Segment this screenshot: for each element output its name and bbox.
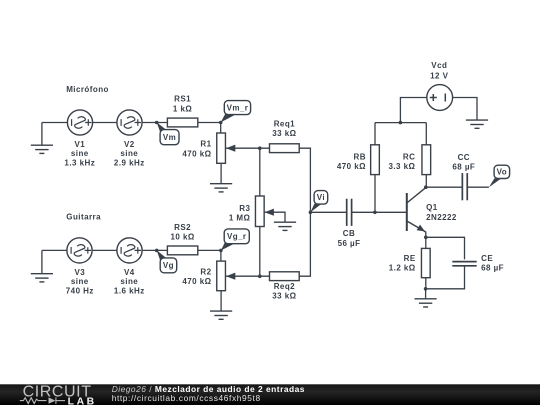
node label Vo <box>489 165 510 187</box>
wire supply rail <box>375 122 426 124</box>
R2 wiper arrow <box>226 273 235 280</box>
svg-text:Vg_r: Vg_r <box>227 232 246 241</box>
source V1 sine <box>67 110 92 135</box>
resistor RC <box>422 145 431 175</box>
wire node to R1 <box>220 123 222 134</box>
resistor Req1 <box>270 144 300 153</box>
ground (guitar input) <box>31 274 53 282</box>
wire Vcd to ground <box>453 98 477 121</box>
node Vm junction <box>155 121 159 125</box>
svg-text:Vi: Vi <box>317 193 325 202</box>
ground (Vcd) <box>466 120 488 128</box>
wire R3 wiper to ground <box>265 212 285 222</box>
node label Vg <box>157 250 177 272</box>
wire to ground <box>425 289 427 299</box>
source V2 sine <box>117 110 142 135</box>
wire input gnd to V3 <box>42 249 67 251</box>
wire R2 wiper to Req2 <box>226 275 270 277</box>
node Vm_r junction <box>219 121 223 125</box>
svg-text:Vo: Vo <box>497 168 507 177</box>
svg-text:Guitarra: Guitarra <box>66 213 101 222</box>
ground (R3 wiper) <box>274 222 296 230</box>
ground (below R2) <box>210 311 232 319</box>
svg-text:Vcd12 V: Vcd12 V <box>430 61 448 80</box>
transistor Q1 2N2222 <box>407 188 426 238</box>
capacitor CB <box>347 199 352 226</box>
ground (mic input) <box>31 145 53 153</box>
resistor RE <box>421 248 430 277</box>
footer bar <box>0 384 540 405</box>
svg-text:Req233 kΩ: Req233 kΩ <box>272 282 296 301</box>
junction R2-wiper/Req2/R3 <box>258 274 262 278</box>
wire input gnd to V1 <box>42 122 68 124</box>
wire RB to base node <box>374 175 376 213</box>
resistor RB <box>371 145 380 175</box>
wire CE to RE bottom <box>426 266 465 289</box>
wire rail up to Vcd <box>400 98 426 123</box>
resistor RS1 <box>167 118 197 127</box>
wire RS1 to node Vm_r <box>198 122 221 124</box>
svg-text:Vm_r: Vm_r <box>227 103 249 112</box>
node Vi junction <box>309 211 313 215</box>
svg-text:http://circuitlab.com/ccss46fx: http://circuitlab.com/ccss46fxh95t8 <box>112 393 261 403</box>
junction R1-wiper/Req1/R3 <box>258 146 262 150</box>
node emitter ground junction <box>424 287 428 291</box>
wire RE to ground node <box>425 278 427 289</box>
source V4 sine <box>117 238 142 263</box>
svg-text:RS11 kΩ: RS11 kΩ <box>173 95 192 114</box>
wire emitter to CE <box>426 237 465 259</box>
node emitter junction <box>424 236 428 240</box>
wire gnd riser <box>41 250 43 273</box>
CircuitLab logo waveform glyph <box>20 397 65 403</box>
node base junction <box>373 211 377 215</box>
wire V3 to V4 <box>92 249 117 251</box>
resistor R1 (pot) <box>217 133 226 163</box>
wire CC to Vo <box>467 186 489 188</box>
node Vg_r junction <box>219 249 223 253</box>
node label Vg_r <box>221 229 249 251</box>
source V3 sine <box>67 238 92 263</box>
wire RS2 to node Vg_r <box>198 249 221 251</box>
resistor R3 (pot) <box>255 196 264 227</box>
node label Vm_r <box>221 101 251 123</box>
svg-text:LAB: LAB <box>68 396 95 405</box>
junction supply rail <box>399 121 403 125</box>
wire gnd riser <box>41 123 43 146</box>
wire R1 wiper to Req1 <box>226 147 270 149</box>
wire V2 to RS1 <box>142 122 167 124</box>
wire V1 to V2 <box>93 122 117 124</box>
wire rail to RB <box>374 123 376 145</box>
ground (emitter) <box>415 299 437 307</box>
wire R2 to ground <box>220 291 222 311</box>
wire emitter to RE <box>425 237 427 248</box>
resistor R2 (pot) <box>217 261 226 291</box>
ground (below R1) <box>210 184 232 192</box>
capacitor CE <box>452 262 476 266</box>
svg-text:Vm: Vm <box>163 133 176 142</box>
wire Vi to CB <box>310 211 346 213</box>
node label Vi <box>310 191 327 213</box>
wire Req1/Req2 right to Vi rail <box>299 148 310 276</box>
wire node to R2 <box>220 250 222 261</box>
wire junction down to R3 <box>259 148 261 196</box>
R1 wiper arrow <box>226 145 235 152</box>
wire CB to Q1 base <box>352 211 407 213</box>
resistor RS2 <box>167 246 197 255</box>
node Vg junction <box>155 249 159 253</box>
wire rail to RC <box>425 123 427 145</box>
node label Vm <box>157 122 179 144</box>
wire RC to collector <box>425 175 427 188</box>
svg-text:Micrófono: Micrófono <box>66 85 109 94</box>
svg-text:Vg: Vg <box>163 261 174 270</box>
wire R3 to lower junction <box>259 227 261 277</box>
wire V4 to RS2 <box>142 249 167 251</box>
wire collector to CC <box>426 186 463 188</box>
wire R1 to ground <box>220 163 222 183</box>
svg-text:Req133 kΩ: Req133 kΩ <box>272 119 296 138</box>
node collector junction <box>424 185 428 189</box>
source Vcd 12V <box>427 85 453 111</box>
capacitor CC <box>462 173 467 200</box>
R3 wiper arrow <box>265 209 274 216</box>
resistor Req2 <box>270 272 300 281</box>
